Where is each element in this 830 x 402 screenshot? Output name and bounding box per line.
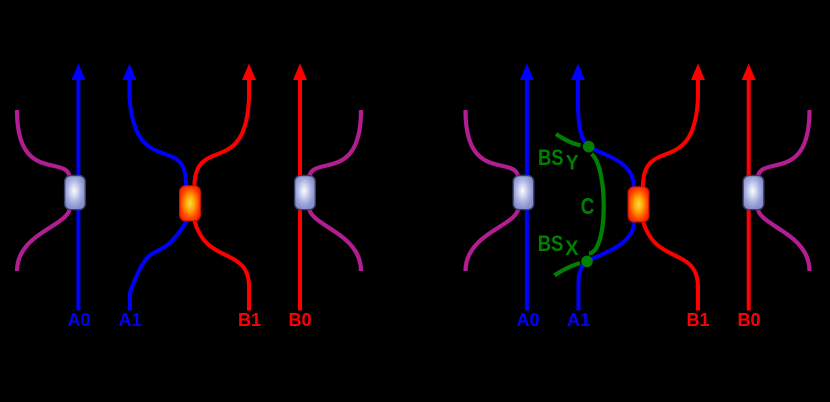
wire mode A1 (blue S-curves through squeezer) <box>130 80 187 311</box>
arrow A1 right <box>571 64 585 81</box>
wire green BSY input swoosh <box>556 134 581 145</box>
arrow A0 <box>71 64 85 81</box>
arrow A1 <box>123 64 137 81</box>
coupler box on B0 right (lavender) <box>743 176 764 210</box>
node BSY (green dot) <box>583 141 595 153</box>
svg-text:BS: BS <box>538 145 564 170</box>
svg-text:B1: B1 <box>686 310 709 330</box>
wire mode A0 right (blue vertical) <box>525 80 529 311</box>
wire mode B1 right (red S-curves through squeezer) <box>643 80 698 311</box>
svg-text:C: C <box>581 193 595 219</box>
wire purple right (port of coupler BS-B0) <box>309 110 361 271</box>
wire mode B0 (red vertical) <box>298 80 302 311</box>
wire mode B1 (red S-curves through squeezer) <box>195 80 250 311</box>
svg-text:A0: A0 <box>67 310 90 330</box>
squeezer box right (orange) <box>628 187 649 222</box>
svg-text:A1: A1 <box>118 310 141 330</box>
svg-text:A1: A1 <box>567 310 590 330</box>
svg-text:B0: B0 <box>288 310 311 330</box>
wire purple right R (port of coupler BS-B0 right panel) <box>758 110 810 271</box>
svg-text:B0: B0 <box>737 310 760 330</box>
squeezer box A1-B1 (orange) <box>180 186 201 221</box>
wire green loop C between BSY and BSX <box>589 154 604 254</box>
arrow B1 right <box>691 64 705 81</box>
node BSX (green dot) <box>581 256 593 268</box>
wire mode B0 right (red vertical) <box>747 80 751 311</box>
wire mode A0 (blue vertical) <box>76 80 80 311</box>
svg-text:B1: B1 <box>238 310 261 330</box>
coupler box on A0 right (lavender) <box>513 176 534 210</box>
arrow B0 right <box>742 64 756 81</box>
arrow B0 <box>293 64 307 81</box>
coupler box on A0 (lavender) <box>65 176 86 210</box>
wire purple left R (port of coupler BS-A0 right panel) <box>466 110 519 271</box>
wire purple left (port of coupler BS-A0) <box>17 110 70 271</box>
svg-text:X: X <box>565 236 579 260</box>
coupler box on B0 (lavender) <box>295 176 316 210</box>
arrow A0 right <box>520 64 534 81</box>
svg-text:A0: A0 <box>516 310 539 330</box>
svg-text:BS: BS <box>538 231 564 256</box>
arrow B1 <box>242 64 256 81</box>
wire green BSX output swoosh <box>555 263 581 275</box>
svg-text:Y: Y <box>566 150 579 174</box>
wire mode A1 right (blue through BSY, squeezer, BSX) <box>578 80 634 311</box>
